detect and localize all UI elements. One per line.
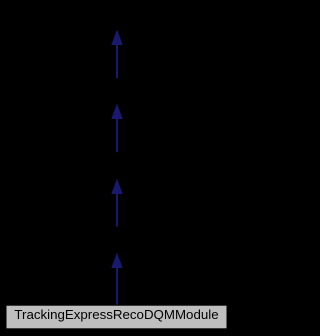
inheritance arrow 3	[111, 179, 122, 227]
class box TrackingExpressRecoDQMModule	[6, 305, 227, 329]
inheritance arrow 1 (topmost)	[111, 30, 122, 79]
inheritance arrow 4 (into class box)	[111, 253, 122, 305]
inheritance arrow 2	[111, 104, 122, 153]
svg-text:TrackingExpressRecoDQMModule: TrackingExpressRecoDQMModule	[14, 307, 218, 322]
